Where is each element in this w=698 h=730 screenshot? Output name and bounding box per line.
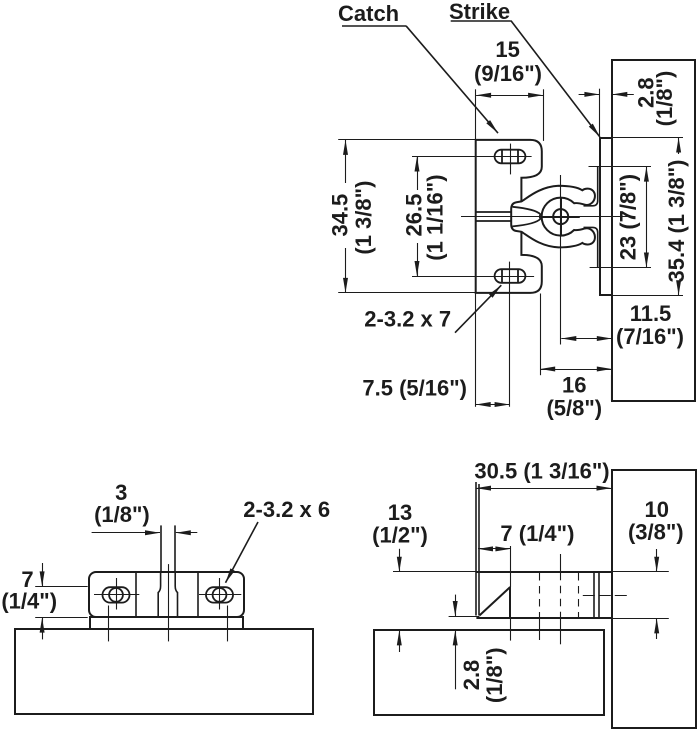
svg-text:15: 15 [495, 37, 519, 62]
svg-text:30.5 (1 3/16"): 30.5 (1 3/16") [474, 459, 609, 484]
svg-text:(1 1/16"): (1 1/16") [423, 174, 448, 260]
svg-text:2-3.2 x 6: 2-3.2 x 6 [243, 497, 330, 522]
svg-text:7 (1/4"): 7 (1/4") [500, 521, 574, 546]
svg-text:16: 16 [562, 373, 586, 398]
svg-text:Catch: Catch [338, 1, 399, 26]
svg-text:34.5: 34.5 [328, 194, 353, 237]
svg-text:(1/2"): (1/2") [372, 522, 428, 547]
svg-text:(5/8"): (5/8") [546, 395, 602, 420]
svg-text:7.5 (5/16"): 7.5 (5/16") [362, 376, 467, 401]
svg-text:10: 10 [644, 497, 668, 522]
svg-text:(7/16"): (7/16") [616, 324, 684, 349]
svg-text:(1 3/8"): (1 3/8") [351, 181, 376, 255]
svg-text:(1/8"): (1/8") [482, 647, 507, 703]
svg-text:(9/16"): (9/16") [474, 61, 542, 86]
svg-text:(3/8"): (3/8") [628, 520, 684, 545]
svg-text:(1/4"): (1/4") [1, 588, 57, 613]
svg-text:11.5: 11.5 [630, 301, 672, 326]
svg-text:23 (7/8"): 23 (7/8") [616, 174, 641, 260]
svg-text:2-3.2 x 7: 2-3.2 x 7 [364, 307, 451, 332]
svg-text:(1/8"): (1/8") [94, 502, 150, 527]
svg-text:35.4 (1 3/8"): 35.4 (1 3/8") [664, 160, 689, 283]
svg-text:(1/8"): (1/8") [652, 71, 677, 127]
svg-text:2.8: 2.8 [459, 660, 484, 691]
